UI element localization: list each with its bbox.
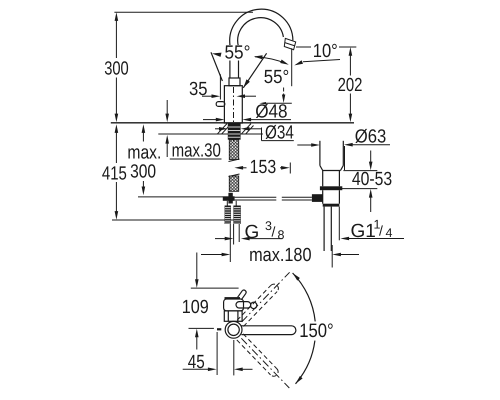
svg-text:45: 45 <box>188 352 205 373</box>
svg-text:4: 4 <box>386 226 393 240</box>
angle arc 55 deg lower <box>254 55 289 65</box>
svg-text:202: 202 <box>338 75 363 96</box>
label 45 <box>183 332 253 375</box>
top view: dim 109 upper arrow <box>191 253 239 289</box>
label G1 1/4 <box>340 218 404 242</box>
water stream line <box>291 48 293 86</box>
swivel arc 150 deg <box>293 273 316 384</box>
countertop hatching <box>218 124 254 134</box>
countertop top line <box>111 122 354 124</box>
shank break lower part <box>229 174 240 191</box>
down arrow outlet <box>260 88 292 105</box>
svg-text:/: / <box>272 224 276 240</box>
svg-text:Ø48: Ø48 <box>255 102 287 123</box>
spout bar top view <box>242 326 296 335</box>
lever bar top view <box>236 302 251 308</box>
dim max.300 <box>127 124 223 197</box>
svg-text:max.180: max.180 <box>249 245 311 266</box>
rod clamp on drain <box>312 194 323 202</box>
dim 300 <box>104 12 129 122</box>
spout riser <box>229 44 231 78</box>
svg-text:/: / <box>379 223 383 239</box>
svg-text:8: 8 <box>278 228 285 242</box>
extension line spout top <box>114 11 253 13</box>
phantom spout centerline up <box>242 272 290 322</box>
svg-text:55°: 55° <box>225 43 251 64</box>
svg-text:G: G <box>245 222 260 243</box>
phantom spout down position <box>237 334 280 378</box>
phantom spout up position <box>237 282 280 326</box>
svg-text:153: 153 <box>250 157 277 178</box>
cartridge cap <box>229 78 240 86</box>
dim 202 <box>338 47 363 122</box>
svg-text:300: 300 <box>104 59 129 80</box>
angle leg left (55 deg) <box>211 52 222 81</box>
dim max.30 <box>165 100 221 162</box>
lever diagonal stub <box>238 290 247 300</box>
drain upper tube <box>320 141 343 171</box>
left tick <box>217 328 221 330</box>
angle line 10 deg <box>294 60 340 66</box>
svg-text:35: 35 <box>189 79 208 100</box>
body centerline <box>233 87 235 141</box>
angle leg right (55 deg) <box>243 53 266 88</box>
svg-text:G1: G1 <box>351 221 376 242</box>
threaded shank through counter <box>228 123 241 139</box>
outlet reference line to 202 <box>296 46 356 48</box>
dim O48 <box>203 102 291 123</box>
dim O34 <box>215 122 294 143</box>
drain body <box>320 171 342 207</box>
dim 40-53 <box>340 151 392 213</box>
label G3/8 <box>215 219 285 243</box>
svg-text:55°: 55° <box>264 67 290 88</box>
handle housing <box>224 299 244 311</box>
base outer circle <box>225 321 242 338</box>
svg-text:150°: 150° <box>299 320 334 342</box>
svg-text:max.: max. <box>127 143 161 164</box>
hose connection fitting <box>223 193 235 204</box>
dim 153 <box>234 157 290 178</box>
base inner circle <box>228 324 239 335</box>
svg-text:10°: 10° <box>313 41 338 62</box>
label 55 deg upper <box>224 45 252 61</box>
dim max.180 <box>201 245 359 268</box>
spout inner arc <box>238 18 284 47</box>
extension lines below hoses <box>230 224 239 262</box>
lever stub <box>216 102 225 107</box>
faucet body <box>224 86 242 123</box>
svg-text:Ø63: Ø63 <box>355 127 387 148</box>
top view handle: thick top edge <box>225 297 241 299</box>
svg-text:300: 300 <box>130 162 156 183</box>
svg-text:Ø34: Ø34 <box>265 122 294 143</box>
lever bar end cap <box>251 302 257 308</box>
pop-up rod <box>235 197 312 200</box>
shank below counter upper part <box>229 140 240 162</box>
phantom spout centerline down <box>241 338 289 388</box>
supply hoses <box>225 201 241 224</box>
aerator <box>284 38 295 49</box>
svg-text:415: 415 <box>102 163 127 184</box>
drain tailpipe <box>324 207 331 251</box>
extension line tailpipe <box>338 207 340 241</box>
dim 35 <box>189 74 256 100</box>
spout outer arc <box>230 9 293 44</box>
handle lower block <box>224 311 242 321</box>
svg-text:109: 109 <box>182 297 209 318</box>
dim O63 <box>297 127 390 171</box>
countertop bottom line <box>158 133 263 135</box>
dim 109 lower arrow <box>189 328 214 349</box>
svg-text:40-53: 40-53 <box>352 169 392 190</box>
svg-text:max.30: max.30 <box>172 141 221 162</box>
dim 415 <box>102 124 238 220</box>
